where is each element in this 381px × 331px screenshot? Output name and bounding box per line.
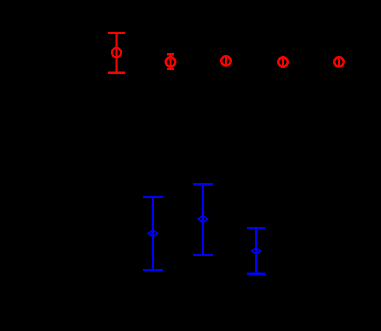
B1 diamond marker — [147, 229, 159, 238]
B3 top cap — [247, 227, 266, 229]
B2 top cap — [193, 183, 213, 185]
B3 bottom cap — [247, 273, 266, 275]
B1 top cap — [143, 196, 163, 198]
R1 error line — [115, 33, 117, 73]
R2 bottom cap — [167, 68, 174, 70]
red errorbar point R3 — [220, 55, 232, 67]
R1 bottom cap — [108, 72, 125, 74]
red errorbar point R1 — [108, 33, 125, 73]
R2 circle marker — [165, 56, 177, 68]
B2 bottom cap — [193, 254, 213, 256]
B2 error line — [202, 184, 204, 255]
red errorbar point R2 — [167, 54, 174, 69]
blue errorbar point B1 — [143, 197, 163, 270]
blue errorbar point B2 — [193, 184, 213, 255]
B3 diamond marker — [250, 246, 261, 255]
B1 error line — [152, 197, 154, 270]
R2 top cap — [167, 53, 174, 55]
B2 diamond marker — [197, 215, 209, 224]
B3 error line — [255, 228, 257, 274]
B1 bottom cap — [143, 269, 163, 271]
blue errorbar point B3 — [247, 228, 266, 274]
R2 error line — [169, 54, 171, 69]
red errorbar point R5 — [333, 56, 345, 68]
red errorbar point R4 — [277, 56, 289, 68]
R1 circle marker — [111, 47, 122, 58]
R1 top cap — [108, 32, 125, 34]
